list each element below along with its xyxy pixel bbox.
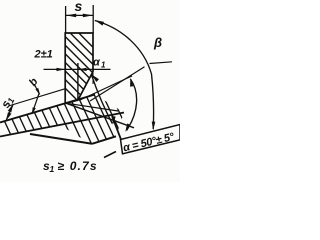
svg-text:s: s [75, 0, 83, 14]
wire: lower descending edge B2 [30, 134, 92, 144]
wire: groove face line D [66, 103, 134, 128]
svg-text:β: β [153, 35, 162, 50]
label s1 [0, 94, 17, 111]
wire: extension line of root face [77, 63, 79, 100]
svg-text:α: α [93, 57, 101, 69]
plate hatching [0, 90, 152, 146]
arrow left of s [66, 14, 76, 18]
leader arrow of b [33, 85, 40, 113]
svg-text:1: 1 [101, 61, 106, 70]
svg-text:2±1: 2±1 [34, 49, 53, 61]
wire: groove angle leg (line ell) [79, 76, 132, 101]
svg-text:≥ 0.7s: ≥ 0.7s [58, 159, 97, 173]
callout box [121, 125, 181, 154]
arrow beta bottom [152, 122, 156, 131]
arrow pointing left at root face line [78, 68, 87, 71]
arrow middle top [91, 74, 99, 82]
arrow s1 bottom [6, 112, 12, 121]
wire: extension line right of s dimension [92, 5, 94, 33]
arrow beta top [95, 20, 105, 26]
bottom sheet bottom edge [0, 113, 124, 137]
svg-text:1: 1 [50, 164, 55, 174]
wire: bevel angle leg (line lambda) [90, 67, 145, 101]
bar hatching [5, 28, 154, 108]
dimension s1 line [6, 104, 13, 119]
wire: small stroke below box corner [104, 152, 116, 158]
inner arc [127, 79, 137, 131]
wire: gap extension line T [9, 89, 66, 106]
dimension 2±1 line [44, 68, 111, 70]
wire: groove face line D2 [66, 103, 118, 111]
dimension s line [66, 14, 93, 16]
wire: plate right end face [112, 116, 121, 140]
arrow middle bottom [112, 116, 115, 125]
label alpha = 50 deg [122, 131, 176, 155]
angle beta arc [95, 21, 154, 130]
wire: extension line left of s dimension [65, 6, 67, 33]
arrow right of s [83, 14, 93, 18]
arrow inner bottom [125, 124, 130, 133]
wire: right face extension below bevel [92, 72, 94, 85]
vertical sheet (bar) outline [65, 33, 93, 103]
middle arc [92, 75, 113, 124]
arrow inner top [130, 78, 133, 87]
bottom sheet (plate) top edge [0, 95, 95, 123]
arrow pointing right at bar left face [57, 68, 66, 71]
arrow s1 top [8, 104, 14, 113]
leader of beta [150, 62, 173, 64]
wire: rising edge into box corner [92, 136, 116, 144]
